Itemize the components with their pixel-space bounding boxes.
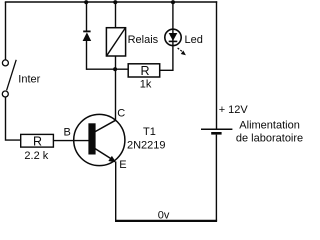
LED D2 circle: [165, 29, 181, 45]
svg-text:E: E: [119, 159, 126, 171]
wire: R1 to base: [53, 140, 88, 142]
wire: relay bottom to node: [115, 56, 117, 69]
svg-text:T1: T1: [143, 126, 156, 138]
svg-text:R: R: [141, 64, 150, 78]
node dot on top rail (LED branch): [171, 0, 175, 4]
svg-text:Alimentation: Alimentation: [239, 120, 300, 132]
wire: node horizontal (diode/relay/R2 junction): [87, 68, 129, 70]
switch S1 Inter: bottom contact: [2, 91, 8, 97]
relay K1 diagonal: [107, 28, 126, 56]
transistor T1 collector diagonal: [95, 120, 116, 132]
transistor T1 circle: [74, 114, 125, 165]
svg-text:Inter: Inter: [18, 74, 40, 86]
wire: LED branch from top rail: [172, 2, 174, 45]
node dot on top rail (relay branch): [113, 0, 117, 4]
svg-text:0v: 0v: [158, 210, 170, 222]
wire: switch to resistor R1: [6, 97, 21, 140]
LED D2 light arrow shaft: [178, 48, 183, 52]
wire: battery - to bottom rail: [215, 135, 217, 221]
transistor T1 emitter diagonal: [95, 148, 114, 160]
resistor R2 body (1k): [128, 64, 160, 77]
transistor T1 base bar: [88, 123, 95, 154]
svg-text:B: B: [64, 126, 71, 138]
wire: diode branch from top rail: [86, 2, 88, 31]
diode D1 cathode bar: [83, 30, 90, 32]
svg-text:C: C: [117, 108, 125, 120]
wire: bottom 0v rail: [115, 220, 217, 222]
svg-text:R: R: [33, 134, 42, 148]
wire: emitter vertical: [115, 162, 117, 222]
wire: relay top: [115, 2, 117, 28]
wire: top +12V rail: [5, 1, 217, 3]
svg-text:+ 12V: + 12V: [219, 104, 249, 116]
battery BT1 positive plate: [201, 128, 232, 130]
svg-text:1k: 1k: [140, 79, 152, 91]
transistor T1 emitter arrowhead: [108, 156, 116, 163]
LED D2 cathode bar: [169, 40, 178, 42]
wire: right vertical from top rail to battery +: [216, 1, 218, 128]
diode D1 triangle: [83, 32, 92, 41]
wire: collector vertical: [115, 69, 117, 120]
relay K1 body: [106, 28, 125, 56]
node junction dot: [113, 67, 117, 71]
battery BT1 negative plate: [211, 132, 221, 135]
resistor R1 body: [21, 134, 54, 147]
svg-text:de laboratoire: de laboratoire: [236, 133, 303, 145]
wire: R2 to LED: [160, 45, 173, 70]
LED D2 triangle: [169, 33, 178, 41]
wire: diode to node: [86, 41, 88, 70]
LED D2 light arrowhead: [181, 51, 186, 56]
node dot on top rail (diode branch): [84, 0, 88, 4]
switch S1 Inter: top contact: [2, 60, 8, 66]
wire: left vertical from top rail to switch: [5, 2, 7, 60]
switch S1 Inter: blade: [7, 60, 17, 91]
svg-text:Led: Led: [185, 34, 203, 46]
svg-text:Relais: Relais: [128, 34, 159, 46]
svg-text:2.2 k: 2.2 k: [24, 150, 48, 162]
svg-text:2N2219: 2N2219: [127, 139, 166, 151]
